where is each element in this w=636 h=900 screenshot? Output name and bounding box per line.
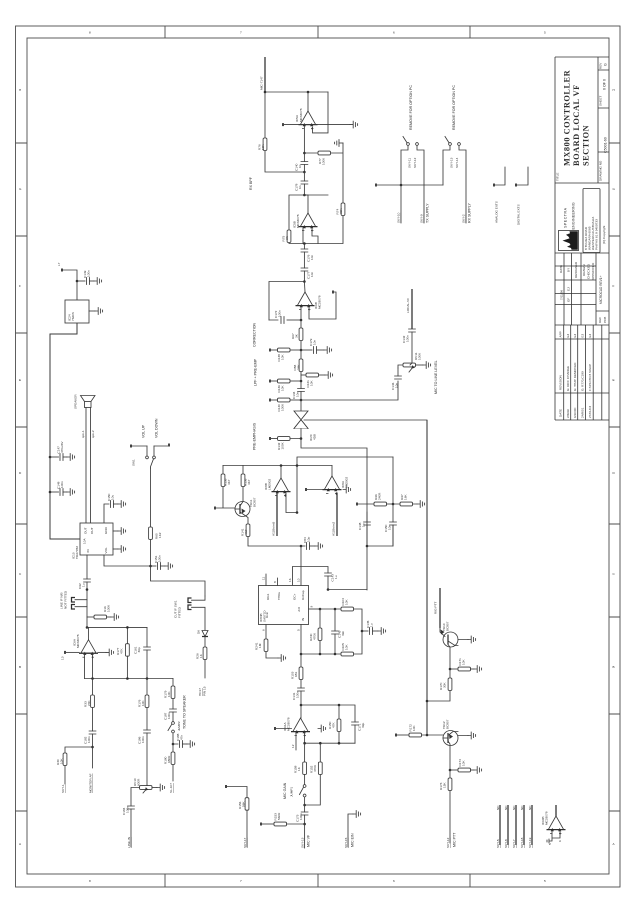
- resistor R76: [258, 92, 305, 172]
- trimpot RV10: [133, 778, 165, 793]
- svg-text:16K: 16K: [404, 494, 408, 500]
- op-amp IC6A: [73, 627, 99, 658]
- svg-text:1u: 1u: [82, 583, 86, 587]
- resistor R180: [164, 744, 175, 793]
- varactor IC20 bowtie: [294, 400, 317, 441]
- svg-text:CORRECTION: CORRECTION: [253, 322, 257, 347]
- wire IC8A inverting input: [332, 493, 338, 537]
- approvals table: [555, 253, 609, 325]
- svg-text:SKY-19: SKY-19: [528, 837, 532, 848]
- capacitor C150: [384, 522, 396, 546]
- svg-text:10n: 10n: [313, 340, 317, 345]
- svg-text:4K7: 4K7: [227, 479, 231, 485]
- ground IC61A: [318, 725, 326, 732]
- resistor R26: [196, 647, 207, 678]
- svg-text:6n: 6n: [298, 164, 302, 168]
- svg-text:G: DIFF CHANGE: G: DIFF CHANGE: [566, 366, 570, 391]
- svg-text:NC: NC: [504, 805, 508, 810]
- capacitor C178: [295, 172, 308, 195]
- resistor R58: [293, 350, 303, 381]
- junction: [392, 503, 395, 506]
- wire jumper1 left leg: [401, 146, 408, 186]
- svg-text:G: R770,C189: G: R770,C189: [581, 371, 585, 391]
- wire tone bus: [85, 678, 174, 680]
- resistor R103: [291, 667, 303, 688]
- wire C150 column: [392, 457, 394, 522]
- svg-text:EJ: EJ: [566, 333, 570, 337]
- node MIC EIN: [344, 811, 361, 848]
- junction: [400, 184, 403, 187]
- node SKY-19 NC: [528, 805, 532, 848]
- svg-text:JuMP2: JuMP2: [177, 721, 181, 731]
- wire IC8B noninv input: [286, 493, 297, 513]
- junction: [300, 319, 303, 322]
- junction: [327, 588, 330, 591]
- svg-text:10A: 10A: [83, 538, 87, 544]
- node MIC VF: [301, 824, 311, 848]
- wire IC61A input line: [274, 727, 292, 730]
- svg-text:7660S: 7660S: [71, 312, 75, 321]
- resistor R142: [269, 429, 301, 451]
- spectra logo box: [559, 231, 579, 251]
- audio amp IC10: [72, 523, 114, 559]
- junction: [280, 464, 283, 467]
- op-amp IC5A: [295, 92, 318, 130]
- svg-text:6: 6: [262, 629, 266, 631]
- resistor R97: [393, 494, 425, 508]
- svg-text:SKY-13: SKY-13: [301, 837, 305, 848]
- capacitor C92: [78, 555, 90, 617]
- svg-text:6: 6: [558, 840, 562, 842]
- resistor R121: [301, 372, 333, 388]
- wire IC24 output to left rail: [50, 323, 81, 539]
- svg-text:DATE: DATE: [559, 409, 563, 417]
- transistor TR11: [235, 497, 257, 524]
- svg-text:24/8/01: 24/8/01: [581, 407, 585, 418]
- capacitor C186: [138, 730, 151, 785]
- svg-text:SPEAKER: SPEAKER: [74, 394, 78, 409]
- junction: [146, 677, 149, 680]
- svg-text:8: 8: [273, 581, 277, 583]
- svg-text:SKY-12: SKY-12: [413, 157, 417, 168]
- node SKY-7 NC: [512, 805, 516, 848]
- capacitor C150B: [104, 493, 126, 523]
- svg-text:H: H: [19, 88, 21, 92]
- svg-text:100n: 100n: [278, 310, 282, 317]
- capacitor C140: [295, 153, 308, 172]
- svg-text:GND: GND: [104, 526, 108, 534]
- ground IC6A: [98, 649, 114, 656]
- svg-text:1u: 1u: [334, 575, 338, 579]
- ground IC24 pin: [89, 308, 103, 315]
- junction: [319, 608, 322, 611]
- svg-text:10K: 10K: [167, 691, 171, 697]
- wire jumper2 right leg RX SUPPLY: [459, 146, 472, 224]
- svg-text:8: 8: [89, 879, 91, 883]
- svg-text:5: 5: [544, 879, 546, 883]
- svg-text:MC33078: MC33078: [296, 214, 300, 228]
- svg-text:SKY-9: SKY-9: [420, 214, 424, 223]
- capacitor C142: [402, 329, 415, 365]
- resistor R140: [269, 398, 301, 411]
- svg-text:12: 12: [291, 744, 295, 748]
- svg-text:SKY-8: SKY-8: [504, 839, 508, 848]
- svg-text:4K7: 4K7: [244, 529, 248, 535]
- junction: [300, 437, 303, 440]
- resistor R150: [328, 704, 341, 744]
- pin stub IC6B: [332, 291, 334, 294]
- node MIC-7147: [260, 57, 266, 92]
- wire C143 to C148 column: [328, 589, 367, 591]
- wire supply bus: [375, 184, 443, 187]
- junction: [303, 242, 306, 245]
- capacitor C146: [391, 368, 401, 390]
- svg-text:100n: 100n: [167, 712, 171, 719]
- wire jog to C148 column: [301, 439, 367, 591]
- svg-text:100n: 100n: [87, 736, 91, 743]
- junction: [126, 677, 129, 680]
- svg-text:VOL UP: VOL UP: [142, 424, 146, 438]
- junction: [426, 700, 429, 703]
- capacitor C176: [301, 244, 314, 269]
- junction: [172, 743, 175, 746]
- svg-text:7: 7: [240, 31, 242, 35]
- svg-text:LPF + PRE-EMP: LPF + PRE-EMP: [254, 358, 258, 386]
- svg-text:spk-1: spk-1: [81, 430, 85, 438]
- svg-text:SKY-11: SKY-11: [408, 158, 412, 168]
- wire IC5B inputs: [303, 228, 318, 244]
- svg-text:SKY-1: SKY-1: [61, 784, 65, 793]
- svg-text:10K: 10K: [462, 659, 466, 665]
- svg-text:10K: 10K: [462, 760, 466, 766]
- svg-text:13: 13: [61, 656, 65, 660]
- svg-text:47K: 47K: [120, 648, 124, 654]
- node LOCAL-VF: [406, 289, 412, 329]
- svg-text:NC: NC: [512, 805, 516, 810]
- svg-text:10K: 10K: [345, 599, 349, 605]
- svg-text:MONITOR-AF: MONITOR-AF: [89, 773, 93, 793]
- wire vol to mute header: [151, 566, 206, 596]
- svg-text:10K: 10K: [281, 385, 285, 391]
- junction: [86, 588, 89, 591]
- svg-text:EJ: EJ: [581, 333, 585, 337]
- svg-text:36p: 36p: [137, 647, 141, 652]
- junction: [449, 769, 452, 772]
- resistor R174: [450, 759, 482, 774]
- svg-text:10n: 10n: [310, 255, 314, 260]
- junction: [300, 653, 303, 656]
- svg-text:SHEET: SHEET: [599, 96, 603, 106]
- svg-text:6n: 6n: [298, 185, 302, 189]
- capacitor C84: [301, 537, 323, 550]
- jumper SKY-13/SKY-14: [445, 137, 460, 169]
- svg-text:OUT: OUT: [90, 527, 94, 534]
- svg-text:100K: 100K: [281, 441, 285, 449]
- svg-text:DIGITAL EXTS: DIGITAL EXTS: [517, 204, 521, 225]
- capacitor C173: [296, 797, 309, 824]
- transistor TR12: [442, 719, 476, 770]
- resistor R77: [304, 143, 343, 203]
- capacitor C187: [164, 709, 177, 722]
- junction: [303, 742, 306, 745]
- svg-text:PIN 15: PIN 15: [203, 686, 207, 696]
- svg-text:REVISION: REVISION: [559, 375, 563, 390]
- wire IC61A output bus: [305, 733, 355, 744]
- junction: [338, 742, 341, 745]
- junction: [307, 91, 310, 94]
- svg-text:LOCAL-VF: LOCAL-VF: [406, 298, 410, 313]
- svg-text:100n: 100n: [158, 555, 162, 562]
- svg-text:1K2: 1K2: [158, 532, 162, 538]
- jumper tone to speaker: [168, 695, 187, 733]
- svg-text:15K: 15K: [443, 782, 447, 788]
- resistor R177: [116, 626, 129, 678]
- svg-text:56K: 56K: [242, 801, 246, 807]
- junction: [91, 746, 94, 749]
- capacitor C171: [352, 722, 365, 743]
- svg-text:NC: NC: [528, 805, 532, 810]
- resistor R105: [341, 643, 354, 656]
- junction: [300, 704, 303, 707]
- junction: [76, 280, 79, 283]
- svg-text:5: 5: [544, 31, 546, 35]
- junction: [91, 677, 94, 680]
- svg-text:G: THAT REMOVED: G: THAT REMOVED: [573, 362, 577, 391]
- capacitor C148: [358, 512, 370, 546]
- svg-text:F: F: [613, 284, 615, 288]
- resistor R158: [294, 743, 307, 784]
- op-amp IC8A: [323, 466, 349, 495]
- svg-text:MIC GAIN: MIC GAIN: [283, 782, 287, 799]
- junction: [303, 194, 306, 197]
- resistor R104: [320, 598, 362, 631]
- wire jumper1 right leg TX SUPPLY: [417, 146, 430, 224]
- svg-text:4K7: 4K7: [247, 479, 251, 485]
- svg-text:1M: 1M: [258, 643, 262, 648]
- capacitor C143: [325, 573, 338, 590]
- svg-text:(C) Copyright: (C) Copyright: [602, 225, 606, 244]
- junction: [264, 91, 267, 94]
- svg-text:10K: 10K: [141, 700, 145, 706]
- svg-text:L7: L7: [57, 262, 61, 266]
- resistor R75: [282, 230, 291, 243]
- svg-text:SECTION: SECTION: [582, 125, 591, 166]
- resistor R138B bias: [214, 466, 235, 510]
- svg-text:24K: 24K: [297, 364, 301, 370]
- wire IC5A input line: [283, 124, 350, 126]
- svg-text:47n: 47n: [180, 735, 184, 740]
- svg-text:MC33078: MC33078: [318, 295, 322, 309]
- junction: [303, 804, 306, 807]
- capacitor C177: [301, 268, 314, 282]
- resistor R96: [356, 492, 393, 506]
- svg-text:EJ: EJ: [588, 333, 592, 337]
- svg-text:100n: 100n: [296, 691, 300, 698]
- node SKY-5 NC: [496, 805, 500, 848]
- svg-text:100n: 100n: [87, 270, 91, 277]
- resistor R170: [427, 669, 452, 701]
- wire jumper2 left leg: [443, 146, 450, 186]
- wire C150 to C148 join: [367, 525, 393, 546]
- capacitor C182: [84, 731, 96, 747]
- capacitor C184: [122, 788, 140, 849]
- svg-text:10K: 10K: [345, 644, 349, 650]
- resistor R153: [260, 812, 305, 826]
- node ANALOG EXTS: [493, 167, 505, 223]
- junction: [296, 464, 299, 467]
- wire main rail: [300, 546, 302, 586]
- svg-text:spk-2: spk-2: [91, 430, 95, 438]
- svg-text:6: 6: [393, 879, 395, 883]
- svg-text:EJ: EJ: [573, 333, 577, 337]
- svg-text:7: 7: [240, 879, 242, 883]
- junction: [296, 511, 299, 514]
- svg-text:10n: 10n: [395, 383, 399, 388]
- resistor R241: [255, 625, 286, 662]
- svg-text:PCB: PCB: [603, 317, 607, 323]
- node SKY-10: [397, 185, 402, 223]
- svg-text:27/01/03: 27/01/03: [588, 406, 592, 418]
- svg-text:470u/6V: 470u/6V: [60, 441, 64, 453]
- svg-text:MIC VF: MIC VF: [307, 834, 311, 847]
- svg-text:TDA7052: TDA7052: [75, 546, 79, 559]
- svg-text:100K: 100K: [418, 352, 422, 360]
- capacitor C172: [274, 310, 301, 324]
- pin 11 stub: [262, 574, 267, 586]
- capacitor C141: [292, 688, 304, 718]
- svg-text:6: 6: [393, 31, 395, 35]
- capacitor C161: [134, 627, 151, 678]
- svg-text:F:SP6 PIN 8 SWAP: F:SP6 PIN 8 SWAP: [588, 364, 592, 391]
- svg-text:100K: 100K: [281, 403, 285, 411]
- svg-text:F: F: [19, 284, 21, 288]
- ground IC8A: [343, 486, 351, 493]
- junction: [300, 380, 303, 383]
- speaker LS1: [74, 394, 96, 409]
- resistor R136: [269, 379, 301, 392]
- svg-text:10K: 10K: [281, 354, 285, 360]
- capacitor C141B: [361, 620, 386, 634]
- compander IC84B SA571: [259, 586, 309, 625]
- resistor R141: [241, 524, 302, 546]
- svg-text:7/11/96: 7/11/96: [560, 290, 564, 300]
- node RIG-PTT: [434, 588, 441, 628]
- wire IC8B inverting input: [272, 493, 278, 537]
- op-amp IC5B: [293, 195, 318, 232]
- svg-text:MC33078: MC33078: [76, 634, 80, 648]
- svg-text:MIC PTT: MIC PTT: [453, 832, 457, 847]
- svg-text:10K: 10K: [310, 380, 314, 386]
- svg-text:100n: 100n: [126, 806, 130, 813]
- wire inverter input: [57, 262, 77, 300]
- svg-text:BY: BY: [567, 268, 571, 272]
- node MONITOR-AF: [89, 747, 93, 793]
- junction: [319, 653, 322, 656]
- svg-text:47K: 47K: [332, 722, 336, 728]
- junction: [86, 626, 89, 629]
- svg-text:SKY-2: SKY-2: [462, 214, 466, 223]
- svg-text:SPECTRA: SPECTRA: [564, 207, 568, 228]
- svg-text:SKY-17: SKY-17: [243, 837, 247, 848]
- diode D6: [197, 630, 209, 647]
- svg-text:10K: 10K: [261, 144, 265, 150]
- svg-text:NOT FITTED: NOT FITTED: [64, 590, 68, 609]
- svg-text:SKY-14: SKY-14: [455, 157, 459, 168]
- wire IC5A inverting input: [303, 126, 305, 153]
- svg-text:1u: 1u: [362, 523, 366, 527]
- resistor R74: [336, 203, 345, 216]
- svg-text:16: 16: [288, 578, 292, 582]
- svg-text:CHECKED: CHECKED: [587, 263, 591, 279]
- svg-text:30K: 30K: [339, 208, 343, 214]
- revision history table: [555, 325, 609, 420]
- svg-text:10K: 10K: [60, 758, 64, 764]
- svg-text:5: 5: [297, 629, 301, 631]
- node SKY-8 NC: [504, 805, 508, 848]
- node HC17 PIN 15: [198, 686, 207, 696]
- op-amp IC6B: [296, 282, 322, 311]
- junction: [300, 349, 303, 352]
- junction: [319, 742, 322, 745]
- resistor R138: [269, 348, 301, 361]
- pin 8 stub: [273, 578, 278, 586]
- capacitor C188: [173, 733, 195, 747]
- wire IC5B feedback box: [289, 195, 343, 244]
- svg-text:681: 681: [294, 672, 298, 677]
- svg-text:SKY-12: SKY-12: [446, 837, 450, 848]
- svg-text:RxCap: RxCap: [301, 590, 305, 600]
- resistor R60: [149, 468, 162, 566]
- junction: [300, 545, 303, 548]
- svg-text:470K: 470K: [313, 632, 317, 640]
- svg-text:10n: 10n: [310, 272, 314, 277]
- svg-text:MICROCAD REV1+: MICROCAD REV1+: [599, 275, 603, 304]
- svg-text:SKY-13: SKY-13: [450, 157, 454, 168]
- ground IC10 pin3: [113, 546, 126, 553]
- svg-text:100n: 100n: [60, 481, 64, 488]
- svg-text:RG1: RG1: [266, 593, 270, 600]
- svg-text:NC: NC: [496, 805, 500, 810]
- svg-text:IN: IN: [86, 549, 90, 552]
- switch SW1 VOL UP / VOL DOWN: [130, 418, 170, 468]
- svg-text:JUMP1: JUMP1: [290, 787, 294, 797]
- wire IC61A pin stub below: [291, 733, 296, 751]
- svg-text:240R: 240R: [378, 492, 382, 500]
- svg-text:SKY-7: SKY-7: [512, 839, 516, 848]
- op-amp IC61A: [283, 717, 310, 736]
- svg-text:GF: GF: [567, 298, 571, 302]
- svg-text:SW1: SW1: [132, 459, 136, 466]
- junction: [300, 399, 303, 402]
- ground IC5A pin4: [350, 121, 358, 128]
- svg-text:DRAWN: DRAWN: [582, 264, 586, 276]
- zone letters left edge: [19, 88, 22, 846]
- wire pre-emphasis tap to TX rail: [304, 419, 427, 421]
- svg-text:THDu: THDu: [277, 592, 281, 600]
- svg-text:BC807: BC807: [446, 621, 450, 631]
- wire speaker leads: [81, 408, 95, 524]
- title block outline: [555, 57, 609, 420]
- svg-text:470K: 470K: [313, 764, 317, 772]
- resistor R173: [439, 770, 452, 843]
- node DIGITAL EXTS: [515, 167, 528, 225]
- junction: [303, 171, 306, 174]
- ground top of R74 rail: [335, 140, 343, 147]
- svg-text:10n: 10n: [388, 525, 392, 530]
- svg-text:DESIGNED: DESIGNED: [574, 261, 578, 278]
- wire compander output pin 9: [309, 606, 321, 610]
- svg-text:10p: 10p: [307, 537, 311, 542]
